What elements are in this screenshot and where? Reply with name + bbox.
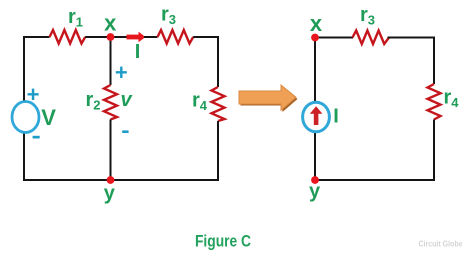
svg-text:V: V <box>41 105 56 130</box>
svg-text:+: + <box>115 60 128 85</box>
svg-text:x: x <box>104 11 117 36</box>
wire: top-left segment (corner to r1) <box>24 37 50 102</box>
resistor r4 left (vertical zigzag) <box>212 87 225 121</box>
wire: r2 down to node y <box>110 120 112 181</box>
svg-text:+: + <box>27 82 40 107</box>
node x (red dot) <box>107 33 115 41</box>
current source arrow (red, up) <box>310 106 323 125</box>
svg-text:v: v <box>121 89 134 111</box>
wire: r4 to bottom-right corner and bottom wire <box>24 121 218 180</box>
svg-text:y: y <box>104 183 116 205</box>
wire: r4 to bottom-right corner and bottom wire <box>315 120 434 181</box>
svg-text:I: I <box>333 105 339 127</box>
wire: r3 to top-right corner, down to r4 <box>193 37 218 87</box>
wire: r3 to top-right corner down to r4 <box>388 38 435 85</box>
node y (red dot) <box>107 176 115 184</box>
resistor r1 (zigzag) <box>50 30 86 44</box>
voltage source V (circle) <box>12 102 39 133</box>
node x right (red dot) <box>311 34 319 42</box>
wire: node x to r3 (top) <box>315 38 353 104</box>
wire: r1 to current arrow <box>85 36 127 38</box>
wire: arrow to r3 <box>144 36 158 38</box>
label - (r2 bottom) <box>122 130 128 133</box>
resistor r4 right (vertical zigzag) <box>428 84 441 120</box>
label - (source bottom) <box>33 136 40 139</box>
orange arrow <box>239 85 296 110</box>
wire: middle branch from node x down to r2 <box>110 37 112 85</box>
svg-text:x: x <box>310 11 323 36</box>
resistor r3 left (zigzag) <box>158 30 194 44</box>
current source I (circle) <box>303 102 330 132</box>
svg-text:y: y <box>309 181 321 203</box>
resistor r2 (vertical zigzag) <box>104 85 117 120</box>
node y right (red dot) <box>311 176 319 184</box>
resistor r3 right (zigzag) <box>353 31 390 45</box>
svg-text:Figure C: Figure C <box>195 231 251 250</box>
svg-text:Circuit Globe: Circuit Globe <box>419 239 463 248</box>
svg-text:I: I <box>135 41 141 63</box>
orange arrow shadow <box>241 87 298 113</box>
current arrow I (red) <box>127 32 146 43</box>
